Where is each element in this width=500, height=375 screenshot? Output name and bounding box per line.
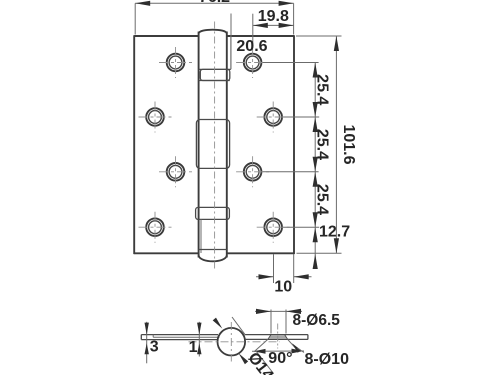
screw hole R2 — [257, 102, 290, 133]
svg-text:25.4: 25.4 — [313, 74, 330, 105]
svg-text:8-Ø10: 8-Ø10 — [305, 351, 350, 368]
dimension 90 degree chord with arrows — [252, 349, 304, 354]
extension line row1 to dim chain — [263, 62, 319, 64]
dimension 20.6 label — [231, 14, 268, 70]
hinge left leaf plate — [134, 35, 198, 254]
left leaf section bar — [141, 335, 219, 340]
svg-text:101.6: 101.6 — [340, 124, 357, 164]
dimension 8-O6.5 countersunk hole — [255, 309, 302, 334]
dimension 1 gap — [189, 322, 202, 357]
svg-text:25.4: 25.4 — [313, 184, 330, 215]
dimension 3 leaf thickness — [145, 322, 159, 364]
center knuckle segment — [196, 120, 229, 169]
knuckle joint line top — [199, 68, 231, 70]
bearing collar lower — [196, 207, 230, 219]
circle vertical centerline — [230, 322, 232, 362]
dimension 76.2 overall width — [135, 0, 293, 34]
dimension 10 bottom right — [256, 254, 312, 295]
svg-text:20.6: 20.6 — [236, 38, 267, 55]
bearing collar upper — [200, 69, 230, 80]
circle horizontal centerline — [189, 341, 281, 343]
leader 8-O10 — [292, 343, 304, 353]
extension line row2 to dim chain — [283, 116, 319, 118]
knuckle edge line right of top knuckle — [230, 36, 232, 69]
dimension O14 barrel diameter — [213, 317, 274, 374]
hinge right leaf plate — [227, 35, 294, 254]
extension line row4 to dim chain — [283, 226, 319, 228]
countersink 90 degree cone lines — [255, 339, 298, 351]
dimension chain line 25.4 spacing — [313, 63, 318, 270]
dimension 19.8 — [253, 8, 294, 48]
screw hole L2 — [139, 102, 172, 133]
svg-text:25.4: 25.4 — [313, 129, 330, 160]
right leaf section bar — [245, 335, 308, 340]
svg-text:10: 10 — [274, 278, 292, 295]
screw hole L1 — [159, 47, 192, 78]
extension line row3 to dim chain — [263, 171, 319, 173]
screw hole L4 — [139, 212, 172, 243]
screw hole L3 — [159, 156, 192, 187]
svg-text:1: 1 — [189, 339, 198, 356]
countersink hole section — [268, 324, 288, 349]
knuckle inner edge bottom segment — [200, 219, 202, 253]
svg-text:19.8: 19.8 — [258, 8, 289, 25]
knuckle joint line below upper collar — [199, 80, 230, 82]
screw hole R1 — [236, 47, 269, 78]
screw hole R3 — [236, 156, 269, 187]
svg-text:3: 3 — [150, 339, 159, 356]
barrel pin centerline — [214, 22, 216, 271]
svg-text:8-Ø6.5: 8-Ø6.5 — [293, 312, 341, 329]
barrel end circle — [218, 328, 246, 356]
barrel knuckle column — [199, 30, 227, 262]
svg-text:12.7: 12.7 — [319, 223, 350, 240]
svg-text:76.2: 76.2 — [199, 0, 230, 6]
knuckle joint line above bottom dome — [199, 249, 227, 251]
dimension 101.6 overall height — [296, 36, 357, 253]
screw hole R4 — [257, 212, 290, 243]
svg-text:90°: 90° — [268, 350, 292, 367]
